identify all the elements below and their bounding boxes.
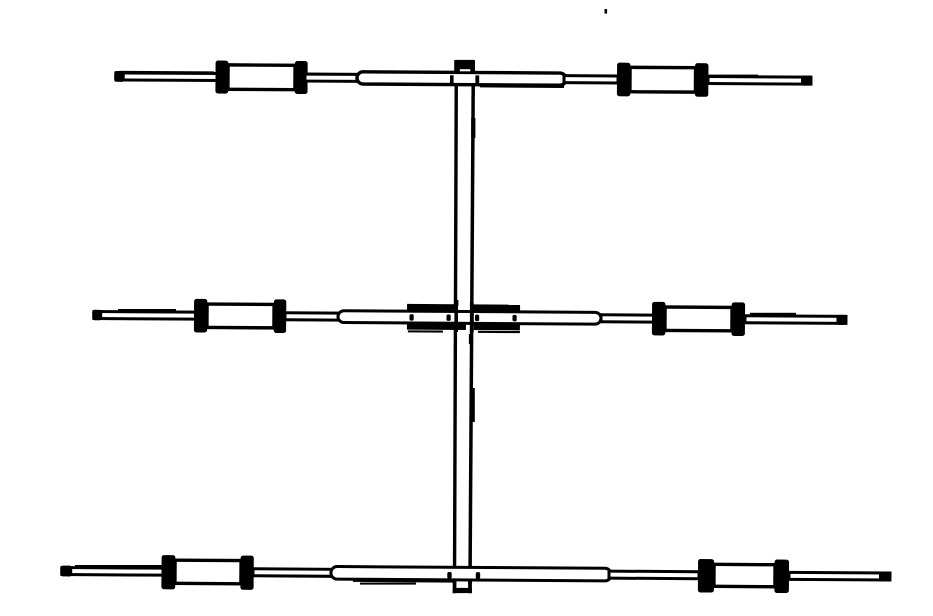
noise smudge over left tube [119,71,214,74]
trap TL2 right cap [274,299,287,333]
trap TR2 left cap [652,302,666,336]
trap TR1 body [630,67,696,92]
driven element left thin tube [94,312,196,320]
driven element right tip [836,315,846,325]
boom segment through feed bracket gap right [470,303,474,332]
trap TR1 left cap [617,63,631,97]
top element center tube [357,72,566,85]
bracket shadow line left [408,330,443,332]
boom clamp tick right [475,75,479,84]
trap TR3 left cap [698,559,714,593]
reflector mid-right thin tube [609,571,699,579]
stray speck [605,9,608,14]
feed bracket top bar left [407,304,454,311]
driven element right thin tube [745,316,846,324]
top element left thin tube [116,73,219,81]
scan noise marks [75,75,796,585]
trap TR3 body [714,564,775,586]
feed bracket bottom bar left [407,324,466,330]
reflector right tip [879,571,890,581]
reflector center tube [331,566,611,580]
reflector right thin tube [789,572,890,580]
boom clamp tick left [450,75,454,84]
wire boom left edge [455,72,457,584]
trap TR2 body [665,307,732,331]
trap TL1 left cap [215,61,228,94]
reflector left tip [60,566,72,577]
boom bottom stub below driven element [469,334,472,344]
bolt B5 [447,572,451,579]
feed bracket bottom bar right [474,324,520,330]
driven element left tip [92,310,102,320]
top element right thin tube [708,77,811,85]
boom (vertical mast tube) [455,72,474,584]
trap TL3 body [175,560,241,584]
boom segment through feed bracket gap left [454,303,458,332]
trap TL3 right cap [240,556,253,590]
boom bottom cap bar [453,588,472,593]
bolt B4 [512,315,516,321]
trap TL3 left cap [161,555,175,589]
boom bottom cap right leg [468,580,472,593]
top element mid-left thin tube [305,74,359,81]
thick lower line right of boom [480,85,564,88]
trap TL1 right cap [295,61,308,94]
boom top cap nut [454,60,475,72]
top element mid-right thin tube [564,76,618,83]
reflector element (bottom) [60,554,890,594]
bracket shadow line right [478,331,520,333]
driven element mid-right thin tube [601,315,655,322]
trap TR1 right cap [695,63,709,97]
boom bottom cap left leg [453,580,457,593]
bolt B1 [409,314,413,320]
reflector mid-left thin tube [253,569,333,577]
driven element mid-left thin tube [285,313,340,320]
trap TL2 left cap [194,299,207,333]
bolt B6 [476,572,480,579]
trap TL1 body [228,65,295,90]
trap TL2 body [207,304,274,328]
wire boom right edge [470,72,473,584]
driven element center tube [338,311,601,324]
thick lower line left of boom [353,579,455,583]
bolt B2 [446,314,450,320]
reflector left thin tube [62,568,163,576]
bolt B3 [475,315,479,321]
top element (director) [114,60,811,98]
trap TR3 right cap [774,560,789,593]
boom top cap slit [460,69,471,71]
feed bracket top bar right [472,304,520,311]
trap TR2 right cap [731,302,745,336]
driven element (middle) [92,298,847,336]
top element right tip [801,76,812,86]
top element left tip [114,71,125,82]
